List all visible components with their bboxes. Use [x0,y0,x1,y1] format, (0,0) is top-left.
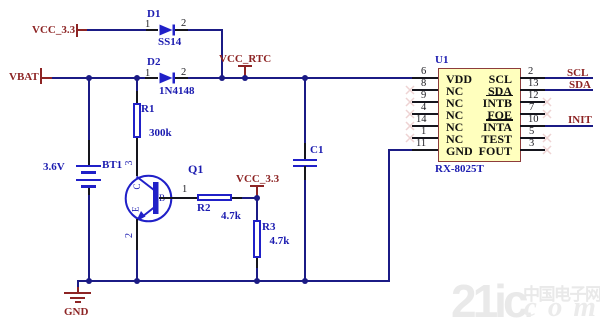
pin 7 FOE stub [520,113,545,115]
watermark com [524,294,600,321]
pin number 10 [528,115,539,125]
ground symbol stem blue [77,281,79,287]
junction Q1 emitter/ground rail [134,278,140,284]
pin name SDA [432,85,512,97]
resistor R3 wire top [256,198,258,220]
pin number 11 [416,139,426,149]
resistor R1 body [133,103,141,139]
ground bar 2 [70,297,85,299]
pin name GND [446,145,473,157]
resistor R1 wire top [136,79,138,91]
power port VCC_RTC stem [244,66,246,78]
battery BT1 top pin [88,140,90,165]
svg-text:C: C [132,183,142,189]
battery BT1 plate long bottom [76,179,101,181]
junction VCC_RTC/VBAT rail [242,75,248,81]
svg-text:E: E [131,206,141,212]
pin D1 cathode [175,29,188,31]
power port VCC_3.3 top-left label [32,25,75,36]
pin number 13 [528,79,539,89]
pin number 4 [421,103,426,113]
battery BT1 bottom pin [88,188,90,195]
power port VCC_RTC bar [238,65,252,67]
junction R1/VBAT rail [134,75,140,81]
junction dot R2/R3 [254,195,260,201]
net label INIT [568,115,592,126]
junction R3/ground rail [254,278,260,284]
net label SCL [567,68,588,79]
port VBAT label [9,72,39,83]
resistor R3 bottom pin [256,258,258,268]
D2 pin number 1 [145,69,150,79]
capacitor C1 bottom pin [304,166,306,180]
pin 9 NC stub [412,101,438,103]
capacitor C1 label [310,145,323,156]
capacitor C1 bottom plate [293,165,317,167]
IC U1 body [438,68,521,162]
battery BT1 plate short bottom [81,185,96,189]
diode D2 designator [147,57,160,68]
power port VCC_3.3 mid bar [250,185,264,187]
pin name VDD [446,73,472,85]
capacitor C1 wire top [304,79,306,143]
underline on pin name SDA [486,95,513,97]
junction BT1/VBAT rail [86,75,92,81]
pin number 8 [421,79,426,89]
battery BT1 plate long top [76,165,101,167]
capacitor C1 top plate [293,159,317,161]
battery BT1 column wire bottom [88,195,90,281]
pin number 7 [529,103,534,113]
resistor R1 top pin [136,91,138,103]
R3 value 4.7k [270,236,290,247]
pin number 12 [528,91,539,101]
diode D1 symbol [160,25,176,36]
port VBAT bar [40,68,42,85]
svg-text:2: 2 [124,233,135,238]
pin number 5 [529,127,534,137]
pin D1 anode [146,29,158,31]
capacitor C1 top pin [304,143,306,159]
wire top rail left of D1 [87,29,146,31]
junction BT1/ground rail [86,278,92,284]
wire Q1 emitter to bottom rail [136,250,138,282]
pin name INTA [432,121,512,133]
R2 value 4.7k [221,211,241,222]
pin U1 GND black segment [412,149,438,151]
wire net SCL [545,77,593,79]
transistor Q1 symbol [126,176,172,222]
battery BT1 column wire top [88,79,90,140]
junction C1/ground rail [302,278,308,284]
wire U1 GND pin down to rail [388,149,390,282]
ground bar 3 [75,301,81,303]
pin number 6 [421,67,426,77]
power port VCC_3.3 mid stem [256,186,258,198]
pin 2 SCL lead [520,77,545,79]
bottom ground rail [77,280,390,282]
pin 5 TEST stub [520,137,545,139]
no-ERC X marks left [406,86,414,142]
pin D2 anode [145,77,158,79]
resistor R2 designator [197,203,210,214]
pin number 14 [416,115,427,125]
power port VCC_3.3 mid label [236,174,279,185]
resistor R2 body [197,194,232,202]
wire C1 to bottom rail [304,180,306,282]
ground label GND [64,307,88,318]
BT1 value 3.6V [43,162,65,173]
D2 value 1N4148 [159,86,194,97]
battery BT1 plate short [81,171,96,175]
pin 8 NC stub [412,89,438,91]
wire R2 to junction [242,197,258,199]
resistor R2 right pin [232,197,242,199]
power port VCC_RTC label [219,54,271,65]
pin D2 cathode [175,77,188,79]
wire net INIT [545,125,593,127]
transistor Q1 pin letters C E B and rotated pin numbers 3 2 [124,161,165,239]
resistor R1 bottom pin to Q1 [136,138,138,176]
wire Q1 base to R2 [159,197,198,199]
pin number 9 [421,91,426,101]
power port VCC_3.3 red stub [77,29,87,31]
pin name FOUT [432,145,512,157]
pin 10 INTA lead [520,125,545,127]
wire U1 GND pin horizontal [388,149,413,151]
resistor R3 designator [262,222,275,233]
pin name NC (1) [446,133,463,145]
D1 pin number 2 [181,19,186,29]
pin name FOE [432,109,512,121]
wire R3 to bottom rail [256,268,258,282]
pin name TEST [432,133,512,145]
net label SDA [569,80,591,91]
ground symbol stem red [77,287,79,293]
pin name NC (14) [446,121,463,133]
port VBAT red stub [41,77,52,79]
pin number 1 [421,127,426,137]
diode D2 symbol [160,73,176,84]
junction D1 branch/VBAT rail [219,75,225,81]
R1 value 300k [149,128,172,139]
pin 4 NC stub [412,113,438,115]
transistor Q1 label [188,164,203,175]
wire top rail right of D1 [188,29,223,31]
pin name NC (8) [446,85,463,97]
Q1 base pin number 1 [182,185,187,195]
pin name INTB [432,97,512,109]
pin 12 INTB stub [520,101,545,103]
Q1 emitter pin down [136,219,138,250]
D1 pin number 1 [145,20,150,30]
pin number 3 [529,139,534,149]
D2 pin number 2 [181,68,186,78]
watermark chinese [523,286,600,303]
pin name NC (9) [446,97,463,109]
wire net SDA [545,89,593,91]
pin name NC (4) [446,109,463,121]
pin name SCL [432,73,512,85]
pin U1 VDD black segment [412,77,438,79]
no-ERC X marks right [543,98,551,154]
battery BT1 designator [102,160,122,171]
wire VBAT rail left [52,77,145,79]
watermark 21ic.com [451,283,529,324]
IC U1 designator [435,55,448,66]
resistor R1 designator [141,104,154,115]
wire vertical drop D1 to VBAT rail [221,29,223,79]
diode D1 designator [147,9,160,20]
ground bar 1 [64,292,91,294]
pin 13 SDA lead [520,89,545,91]
pin 14 NC stub [412,125,438,127]
IC U1 part number [435,164,484,175]
underline on pin name FOE [486,119,513,121]
pin number 2 [528,67,533,77]
wire VBAT rail middle [188,77,412,79]
power port VCC_3.3 top-left bar [76,24,78,38]
svg-text:3: 3 [124,161,135,166]
junction C1/VBAT rail [302,75,308,81]
resistor R3 body [253,220,261,258]
D1 value SS14 [158,37,181,48]
pin 1 NC stub [412,137,438,139]
pin 3 FOUT stub [520,149,545,151]
